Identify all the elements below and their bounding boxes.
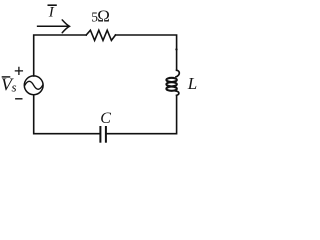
wire inductor to bottom-right corner to capacitor	[107, 95, 177, 133]
voltage source Vs circle	[24, 76, 43, 95]
plus sign of source	[15, 67, 22, 74]
wire resistor to top-right corner and down to inductor	[116, 35, 177, 70]
svg-text:L: L	[187, 74, 197, 93]
svg-text:I: I	[48, 5, 55, 21]
capacitor C plates	[105, 127, 107, 142]
current arrow I	[38, 25, 68, 27]
overbar of I	[48, 4, 56, 6]
inductor L coil	[176, 70, 179, 77]
svg-text:s: s	[12, 80, 17, 95]
overbar of V	[2, 76, 9, 78]
resistor R 5ohm zigzag	[86, 30, 115, 40]
wire capacitor to bottom-left corner up to source	[34, 95, 100, 134]
svg-text:Ω: Ω	[97, 6, 110, 25]
svg-text:C: C	[100, 110, 111, 127]
minus sign of source	[16, 98, 22, 100]
junction dot on right wire	[175, 48, 177, 50]
sine wave inside source	[25, 81, 43, 89]
wire top-left to resistor	[34, 35, 86, 76]
